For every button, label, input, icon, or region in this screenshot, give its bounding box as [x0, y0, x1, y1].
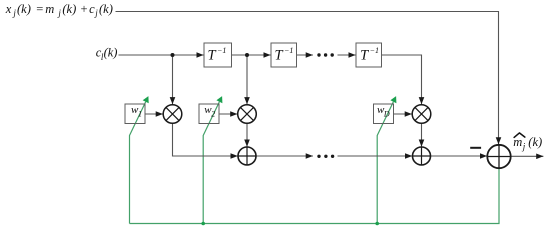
svg-text:T: T: [208, 47, 217, 63]
svg-text:+: +: [81, 2, 88, 16]
svg-text:=: =: [36, 2, 43, 16]
svg-text:D: D: [383, 110, 390, 119]
svg-text:m: m: [45, 2, 54, 16]
svg-text:2: 2: [211, 110, 215, 119]
svg-text:(k): (k): [528, 135, 542, 149]
svg-text:x: x: [5, 2, 12, 16]
svg-text:j: j: [522, 141, 526, 151]
svg-text:(k): (k): [17, 2, 31, 16]
svg-text:(k): (k): [104, 46, 118, 60]
svg-text:j: j: [94, 8, 98, 18]
svg-text:j: j: [57, 8, 61, 18]
svg-text:−1: −1: [284, 46, 293, 55]
svg-text:(k): (k): [99, 2, 113, 16]
svg-text:(k): (k): [62, 2, 76, 16]
svg-text:T: T: [275, 47, 284, 63]
svg-text:−1: −1: [217, 46, 226, 55]
svg-text:c: c: [89, 2, 95, 16]
svg-text:j: j: [12, 8, 16, 18]
svg-text:−1: −1: [370, 46, 379, 55]
svg-text:1: 1: [138, 110, 142, 119]
svg-text:T: T: [360, 47, 369, 63]
